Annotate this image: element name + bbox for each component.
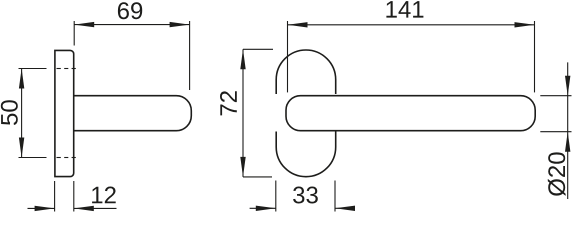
dimension 12 — [28, 181, 117, 212]
label D20 — [548, 152, 566, 196]
label 72 — [220, 91, 237, 115]
dimension 33 — [250, 181, 355, 212]
center line upper — [19, 68, 76, 70]
lever grip (front view) — [286, 96, 535, 131]
dimension 69 — [74, 21, 189, 90]
center line lower — [19, 157, 76, 159]
dimension D20 — [540, 62, 571, 199]
label 141 — [386, 1, 423, 18]
dimension 72 — [243, 49, 273, 177]
lever grip (side view) — [74, 96, 192, 131]
label 33 — [293, 187, 318, 204]
label 50 — [1, 100, 18, 125]
label 12 — [92, 187, 116, 204]
label 69 — [118, 2, 142, 19]
oval rosette (front view) — [276, 50, 336, 94]
dimension 50 — [21, 69, 23, 158]
dimension 141 — [288, 21, 535, 92]
rosette (side view) — [55, 50, 74, 176]
